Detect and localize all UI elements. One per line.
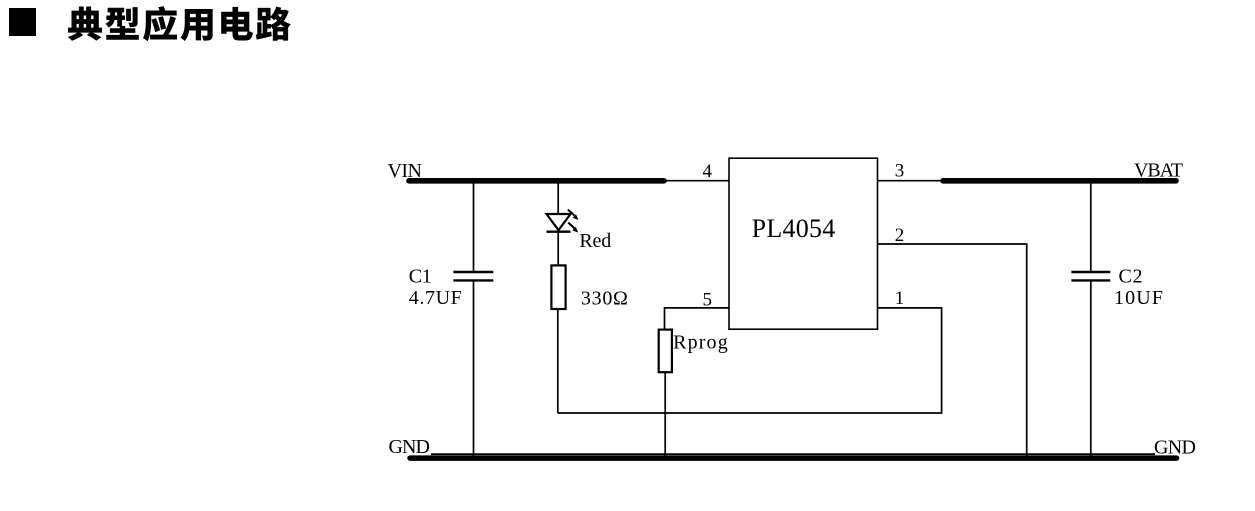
- svg-text:Rprog: Rprog: [673, 332, 728, 354]
- svg-text:4.7UF: 4.7UF: [409, 287, 462, 309]
- svg-text:GND: GND: [1154, 437, 1196, 459]
- svg-text:C1: C1: [409, 266, 432, 288]
- svg-text:2: 2: [895, 225, 905, 246]
- svg-text:4: 4: [703, 161, 713, 182]
- svg-text:330Ω: 330Ω: [581, 288, 628, 310]
- svg-text:3: 3: [895, 161, 905, 182]
- svg-text:5: 5: [703, 290, 713, 311]
- svg-text:VBAT: VBAT: [1134, 160, 1183, 182]
- svg-text:VIN: VIN: [388, 160, 423, 182]
- svg-text:Red: Red: [579, 230, 611, 252]
- svg-text:1: 1: [895, 288, 905, 309]
- svg-text:PL4054: PL4054: [752, 214, 836, 243]
- svg-text:GND: GND: [389, 436, 431, 458]
- svg-text:C2: C2: [1119, 266, 1143, 288]
- svg-text:10UF: 10UF: [1114, 287, 1163, 309]
